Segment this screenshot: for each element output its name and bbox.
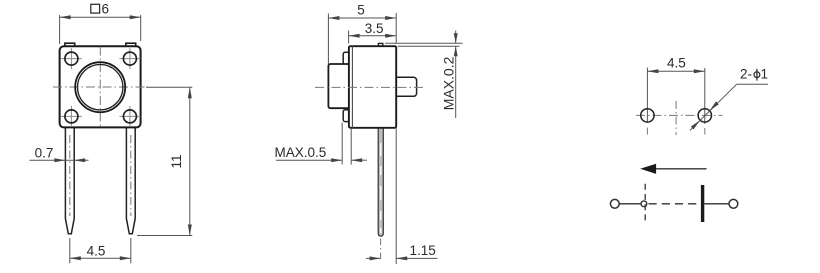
right locating boss (side view) <box>394 77 417 96</box>
top locating bump (side view) <box>378 43 382 48</box>
svg-text:0.7: 0.7 <box>35 145 54 160</box>
footprint centerline horizontal <box>636 114 723 116</box>
extension line left for 5 <box>327 14 329 65</box>
MAX.0.5 dimension arrows <box>276 158 367 162</box>
stem collar top (side view) <box>343 52 351 64</box>
switch body (side view) <box>349 46 396 128</box>
mounting hole right <box>698 109 711 122</box>
leg centerline right <box>130 135 132 216</box>
svg-text:2-: 2- <box>740 67 752 82</box>
dimension 11 extension line bottom <box>137 235 192 237</box>
MAX.0.2 extension line upper (bump top) <box>385 42 463 44</box>
front view mounting tab left (top) <box>65 43 75 49</box>
MAX.0.5 extension lines <box>342 123 351 165</box>
svg-text:5: 5 <box>357 2 365 17</box>
1.15 body edge extension line <box>395 129 397 265</box>
corner rivet bottom-left <box>61 106 82 127</box>
hole right centerline vertical <box>704 68 706 135</box>
footprint centerline middle vertical <box>675 101 677 135</box>
centerline vertical (front view) <box>99 47 101 127</box>
extension line right for 6 <box>140 15 142 41</box>
push button inner circle (front view) <box>78 65 123 110</box>
MAX.0.2 dimension arrows <box>454 31 458 119</box>
leg highlight marks <box>380 143 381 233</box>
actuation direction arrow <box>640 164 706 174</box>
push button outer circle (front view) <box>75 62 125 112</box>
1.15 dimension arrows <box>366 256 438 260</box>
dimension line 5 <box>328 16 396 20</box>
svg-text:3.5: 3.5 <box>365 21 384 36</box>
contact bar (schematic) <box>701 185 704 222</box>
dashed actuator link (schematic) <box>649 203 700 205</box>
terminal circle right (schematic) <box>729 199 738 208</box>
terminal circle left (schematic) <box>610 199 619 208</box>
svg-text:MAX.0.5: MAX.0.5 <box>275 145 327 160</box>
push button stem (side view) <box>328 64 350 108</box>
dimension line 4.5 (front) <box>70 256 131 260</box>
svg-text:4.5: 4.5 <box>87 243 106 258</box>
dimension 4.5 (front) extension lines <box>70 238 131 263</box>
1.15 leg center dashed extension <box>380 239 382 263</box>
MAX.0.2 extension line lower (body top) <box>398 45 460 47</box>
svg-text:MAX.0.2: MAX.0.2 <box>440 56 456 110</box>
mounting hole left <box>641 109 654 122</box>
terminal leg right (front view) <box>126 127 135 234</box>
svg-text:11: 11 <box>169 154 184 168</box>
centerline horizontal (side view) <box>315 86 423 88</box>
dimension line 11 <box>188 87 192 235</box>
dimension "square 6" label <box>91 1 109 16</box>
svg-text:1: 1 <box>761 67 769 82</box>
label 2-phi1 <box>740 67 768 82</box>
extension line left for 6 <box>59 15 61 44</box>
dimension line for 6 <box>60 15 141 19</box>
corner rivet bottom-right <box>119 106 140 127</box>
extension line left for 3.5 <box>348 31 350 44</box>
centerline horizontal (front view) <box>53 86 148 88</box>
terminal leg left (front view) <box>65 127 74 234</box>
vertical dashed plunger line (schematic) <box>644 184 646 223</box>
dimension line 3.5 <box>349 34 397 38</box>
svg-text:6: 6 <box>102 1 110 16</box>
stem collar bottom (side view) <box>343 110 351 122</box>
front view mounting tab right (top) <box>126 43 136 49</box>
leader line 2-phi1 <box>690 84 768 130</box>
terminal leg (side view, gray) <box>378 128 383 236</box>
hole left centerline vertical <box>646 68 648 135</box>
corner rivet top-right <box>119 48 140 69</box>
dimension 11 extension line top <box>146 86 192 88</box>
svg-text:1.15: 1.15 <box>410 243 436 258</box>
extension line right for 5 / 3.5 <box>395 13 397 44</box>
body seam line (side view) <box>351 46 353 128</box>
switch body outline (front view) <box>60 46 141 127</box>
wire left (schematic) <box>619 203 641 205</box>
leg centerline left <box>69 135 71 216</box>
movable contact circle (schematic) <box>641 201 647 207</box>
dimension 4.5 (footprint) line <box>647 69 704 73</box>
corner rivet top-left <box>61 48 82 69</box>
dimension 0.7 arrows <box>30 158 89 162</box>
wire right (schematic) <box>704 203 729 205</box>
svg-text:4.5: 4.5 <box>667 55 686 70</box>
